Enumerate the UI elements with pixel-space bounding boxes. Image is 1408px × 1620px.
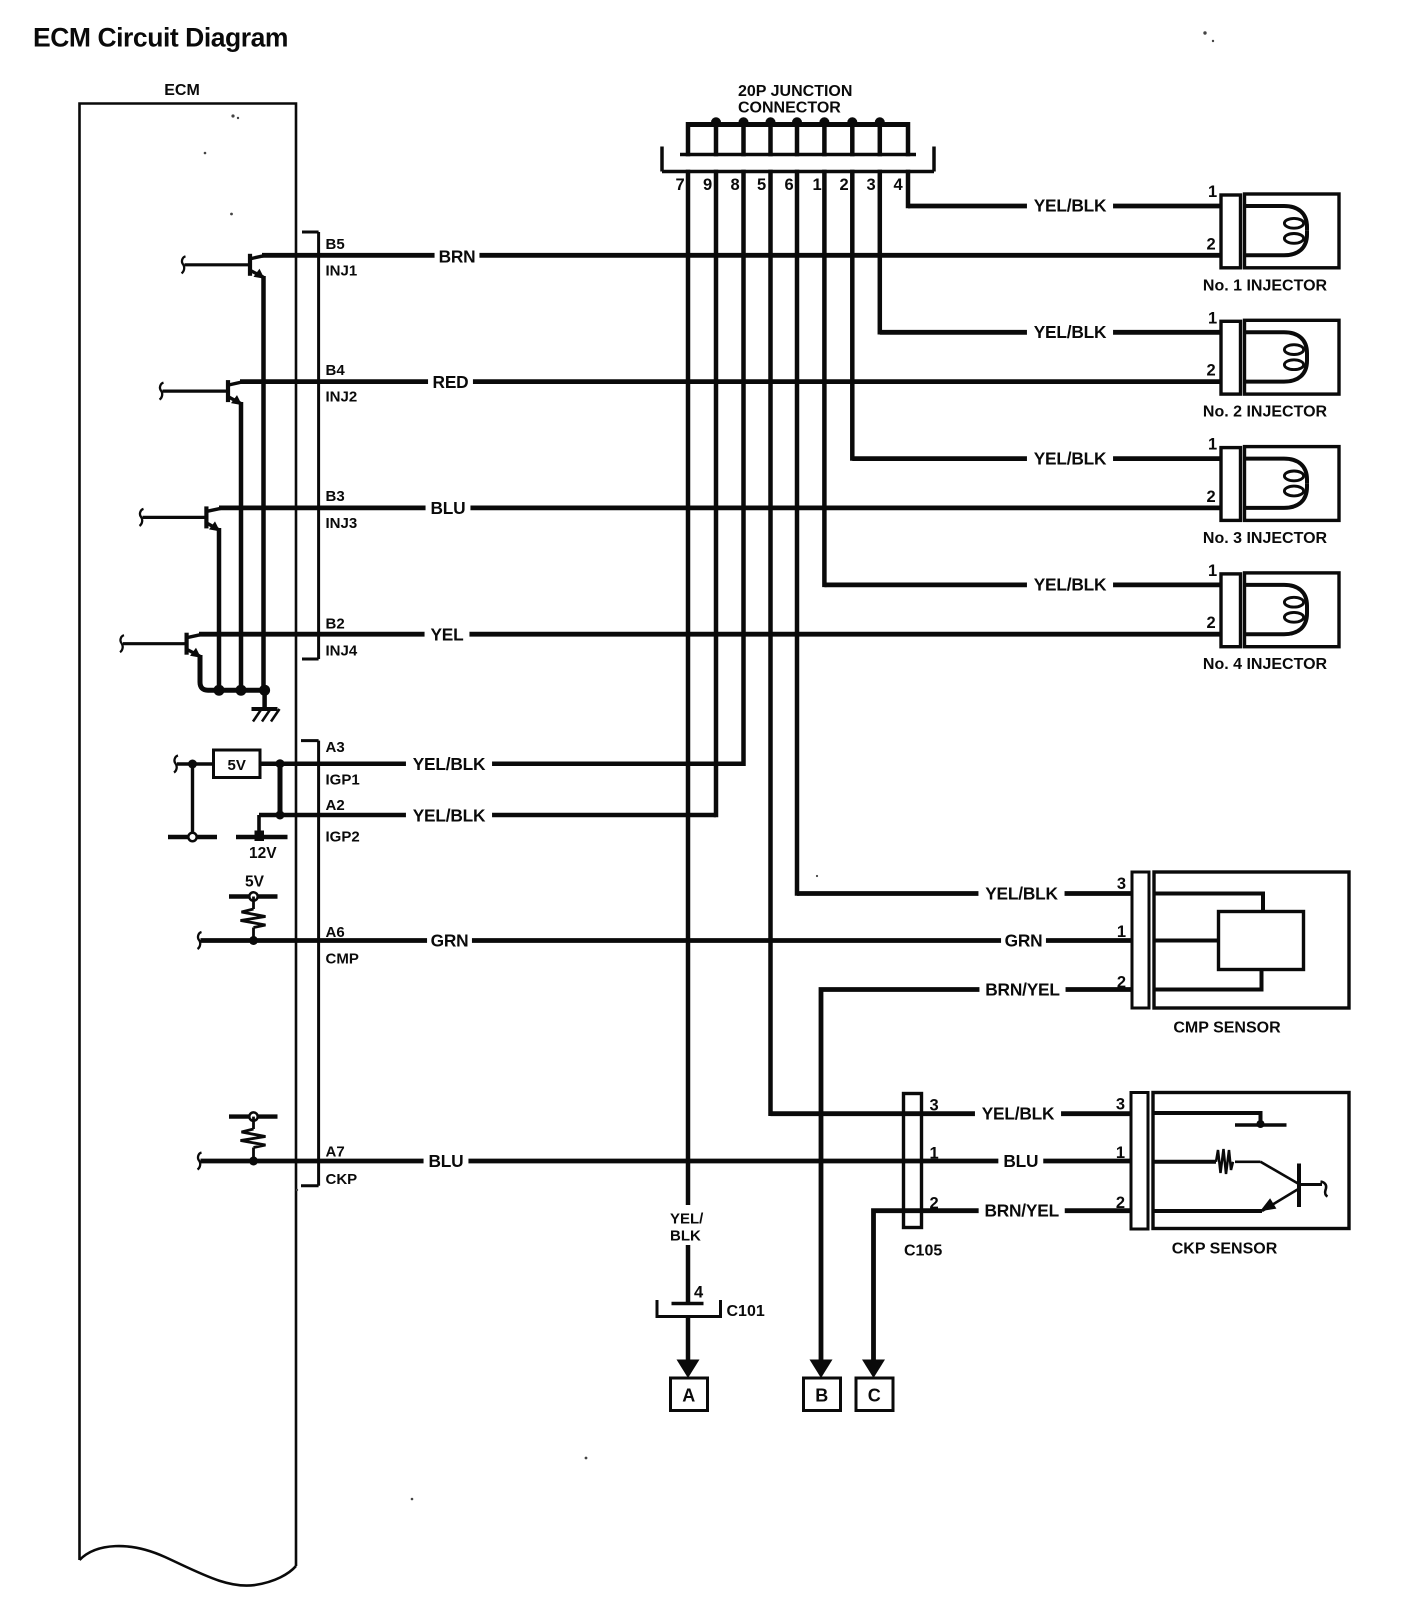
svg-text:BLU: BLU [1003, 1151, 1038, 1171]
node A [671, 1360, 708, 1411]
CMP sensor connector bar [1132, 872, 1149, 1008]
svg-text:YEL/BLK: YEL/BLK [1034, 448, 1107, 468]
resistor R1 (CMP pull-up) [241, 897, 266, 941]
injector L1 coil [1245, 194, 1340, 268]
ground symbol [252, 709, 280, 722]
pin label A7/CKP [326, 1144, 358, 1189]
svg-text:CKP SENSOR: CKP SENSOR [1172, 1241, 1278, 1258]
wire: Q3 emitter vertical [217, 528, 222, 690]
wire: YEL/BLK feed to No.1 injector pin 1 [908, 204, 1221, 209]
label YEL/BLK IGP1 wire [406, 754, 492, 775]
12V tap rail [236, 835, 288, 839]
wire: branch down to left supply tap [191, 764, 194, 833]
No. 3 injector connector [1221, 448, 1241, 521]
svg-text:9: 9 [703, 176, 712, 194]
open connector circle (CMP pull-up) [249, 892, 257, 900]
svg-text:5V: 5V [228, 757, 246, 774]
svg-text:3: 3 [1116, 1096, 1125, 1114]
5V regulator box U1 [214, 750, 261, 778]
junction dot on A6/CMP line [249, 936, 258, 945]
label BRN/YEL CMP pin2 wire [979, 979, 1065, 1000]
svg-text:B5: B5 [326, 236, 345, 253]
junction dot on IGP2 line [276, 811, 285, 820]
label YEL wire [425, 624, 470, 645]
svg-text:B4: B4 [326, 362, 346, 379]
svg-text:2: 2 [1207, 362, 1216, 380]
svg-text:2: 2 [1207, 488, 1216, 506]
transistor Q1 (INJ1 driver) [182, 254, 265, 279]
svg-text:CONNECTOR: CONNECTOR [738, 100, 841, 117]
injector 1 pin numbers [1207, 183, 1218, 253]
20P junction connector label [738, 83, 852, 117]
ECM connector strip A (pins A3-A7) [301, 741, 319, 1186]
junction dot on 5V input [188, 760, 197, 769]
injector 3 pin numbers [1207, 436, 1218, 506]
wire: 20P pin 2 vertical down to injector3 feed [850, 122, 855, 461]
label YEL/BLK injector 4 feed wire [1027, 574, 1113, 595]
svg-text:A2: A2 [326, 797, 345, 814]
label GRN CMP pin1 wire [1001, 930, 1046, 951]
resistor R2 (CKP pull-up) [241, 1117, 266, 1161]
supply tap rail (left) [168, 835, 217, 839]
svg-text:A6: A6 [326, 924, 345, 941]
transistor Q2 (INJ2 driver) [160, 380, 243, 405]
svg-text:1: 1 [1208, 436, 1217, 454]
pin label A2/IGP2 [326, 797, 360, 846]
svg-text:No. 1 INJECTOR: No. 1 INJECTOR [1203, 277, 1328, 294]
svg-text:No. 4 INJECTOR: No. 4 INJECTOR [1203, 656, 1328, 673]
wire: 20P pin 6 vertical down to CMP YEL/BLK line [795, 122, 800, 896]
injector 4 pin numbers [1207, 562, 1218, 632]
label YEL/BLK (pin7 wire) [666, 1205, 716, 1245]
svg-text:2: 2 [1117, 974, 1126, 992]
injector L4 coil [1245, 573, 1340, 647]
svg-text:C101: C101 [727, 1303, 765, 1320]
svg-text:BLU: BLU [429, 1151, 464, 1171]
wire: A6/CMP GRN line from ECM to CMP sensor pin 1 [198, 932, 1133, 949]
No. 4 injector connector [1221, 574, 1241, 647]
svg-text:5: 5 [757, 176, 766, 194]
wire: 20P pin 3 vertical down to injector2 feed [878, 122, 883, 335]
label GRN wire [427, 930, 472, 951]
CKP sensor connector bar [1131, 1093, 1148, 1230]
svg-text:IGP1: IGP1 [326, 772, 360, 789]
wire: BRN/YEL CMP sensor pin 2 to node B [821, 990, 1132, 1363]
svg-text:1: 1 [1116, 1144, 1125, 1162]
wire: ECM B4 RED to No.2 injector pin 2 [240, 379, 1221, 384]
open connector circle on left tap [188, 833, 196, 841]
node B [804, 1360, 841, 1411]
wire: A2/IGP2 line to pin9 corner [259, 813, 716, 818]
pin label B3/INJ3 [326, 488, 358, 532]
pin label A6/CMP [326, 924, 359, 968]
svg-text:YEL/BLK: YEL/BLK [985, 884, 1058, 904]
wire: 20P pin 5 vertical down to CKP YEL/BLK line [768, 122, 773, 1116]
svg-text:2: 2 [1207, 614, 1216, 632]
svg-text:1: 1 [1208, 183, 1217, 201]
CMP sensor pin numbers [1117, 875, 1126, 992]
wire: ECM B2 YEL to No.4 injector pin 2 [199, 632, 1221, 637]
wire: BRN/YEL CKP sensor pin 2 to node C [874, 1211, 1132, 1362]
node C [856, 1360, 893, 1411]
svg-text:B: B [815, 1386, 828, 1406]
wire: YEL/BLK feed to No.3 injector pin 1 [852, 456, 1221, 461]
label BLU CKP pin1 wire [998, 1151, 1043, 1172]
wire: C101 to node A arrow [686, 1317, 691, 1363]
label BLU wire [426, 498, 471, 519]
svg-text:6: 6 [785, 176, 794, 194]
svg-text:A3: A3 [326, 739, 345, 756]
svg-text:4: 4 [694, 1284, 704, 1302]
svg-text:B3: B3 [326, 488, 345, 505]
wire: IGP2 down to 12V tap [257, 815, 261, 833]
pin label B5/INJ1 [326, 236, 358, 280]
svg-text:2: 2 [1207, 235, 1216, 253]
svg-text:INJ2: INJ2 [326, 389, 358, 406]
svg-text:B2: B2 [326, 616, 345, 633]
label YEL/BLK IGP2 wire [406, 805, 492, 826]
svg-text:1: 1 [1117, 923, 1126, 941]
connector C105 [904, 1094, 943, 1260]
svg-text:YEL/: YEL/ [670, 1211, 704, 1228]
svg-text:A7: A7 [326, 1144, 345, 1161]
svg-text:YEL/BLK: YEL/BLK [1034, 575, 1107, 595]
svg-text:2: 2 [840, 176, 849, 194]
svg-text:BRN/YEL: BRN/YEL [984, 1201, 1059, 1221]
svg-text:ECM Circuit Diagram: ECM Circuit Diagram [33, 23, 288, 53]
svg-text:YEL/BLK: YEL/BLK [1034, 322, 1107, 342]
transistor Q3 (INJ3 driver) [140, 506, 221, 531]
svg-text:RED: RED [433, 372, 469, 392]
svg-text:INJ3: INJ3 [326, 515, 358, 532]
svg-text:YEL: YEL [430, 625, 464, 645]
20P junction connector body [662, 147, 934, 172]
ECM connector strip B (pins B5-B2) [302, 232, 319, 659]
svg-text:No. 3 INJECTOR: No. 3 INJECTOR [1203, 530, 1328, 547]
svg-text:C105: C105 [904, 1243, 942, 1260]
wire: YEL/BLK feed to No.2 injector pin 1 [880, 330, 1221, 335]
svg-text:3: 3 [930, 1097, 939, 1115]
wire: ECM B5 BRN to No.1 injector pin 2 [262, 253, 1221, 258]
pin label B2/INJ4 [326, 616, 358, 660]
svg-text:1: 1 [1208, 309, 1217, 327]
label BLU CKP wire [424, 1151, 469, 1172]
svg-text:5V: 5V [245, 874, 265, 891]
svg-text:1: 1 [930, 1145, 939, 1163]
junction dot on A7/CKP line [249, 1157, 258, 1166]
injector L3 coil [1245, 447, 1340, 521]
CKP sensor [1153, 1093, 1349, 1229]
wire: vertical link IGP1 to IGP2 [278, 764, 283, 818]
svg-text:YEL/BLK: YEL/BLK [413, 806, 486, 826]
wire: emitter bus to ground [262, 690, 267, 709]
No. 1 injector connector [1221, 195, 1241, 268]
wire: Q2 emitter vertical [239, 402, 244, 690]
label YEL/BLK injector 1 feed wire [1027, 195, 1113, 216]
wire: 5V box input lead [174, 756, 214, 773]
svg-text:20P JUNCTION: 20P JUNCTION [738, 83, 852, 100]
wire: YEL/BLK feed to No.4 injector pin 1 [824, 583, 1221, 588]
svg-text:1: 1 [1208, 562, 1217, 580]
CMP pull-up supply rail [229, 894, 278, 898]
label BRN wire [435, 246, 480, 267]
ECM box [80, 82, 297, 1586]
wire: 20P pin 4 vertical down to injector1 feed [906, 122, 911, 208]
svg-text:No. 2 INJECTOR: No. 2 INJECTOR [1203, 404, 1328, 421]
svg-text:INJ1: INJ1 [326, 263, 358, 280]
svg-text:12V: 12V [249, 845, 277, 862]
wire: Q1 emitter vertical [261, 276, 266, 690]
injector 2 pin numbers [1207, 309, 1218, 379]
CMP sensor [1154, 872, 1349, 1008]
svg-text:7: 7 [676, 176, 685, 194]
20P connector pin numbers 7 9 8 5 6 1 2 3 4 [676, 176, 904, 194]
label YEL/BLK CMP pin3 wire [978, 883, 1064, 904]
wire: 20P pin 9 vertical down to IGP2 line [714, 122, 719, 817]
svg-text:INJ4: INJ4 [326, 643, 358, 660]
svg-text:CMP: CMP [326, 951, 359, 968]
label YEL/BLK CKP pin3 wire [975, 1103, 1061, 1124]
wire: 20P pin 1 vertical down to injector4 feed [822, 122, 827, 587]
svg-text:IGP2: IGP2 [326, 829, 360, 846]
svg-text:YEL/BLK: YEL/BLK [413, 754, 486, 774]
svg-text:CKP: CKP [326, 1171, 358, 1188]
svg-text:ECM: ECM [164, 82, 200, 99]
pin label A3/IGP1 [326, 739, 360, 789]
svg-text:CMP SENSOR: CMP SENSOR [1173, 1020, 1281, 1037]
svg-text:GRN: GRN [431, 931, 469, 951]
wire: Q4 emitter to common bus [200, 655, 265, 690]
svg-text:4: 4 [894, 176, 904, 194]
junction dots on 20P bus [711, 117, 885, 127]
C105 pin numbers [930, 1097, 939, 1213]
wire: A3/IGP1 line from 5V box to pin8 corner [260, 761, 744, 766]
CKP sensor pin numbers [1116, 1096, 1125, 1213]
wire: YEL/BLK pin5 branch to CKP sensor pin 3 [771, 1111, 1132, 1116]
transistor Q4 (INJ4 driver) [120, 633, 201, 658]
svg-text:BRN/YEL: BRN/YEL [985, 980, 1060, 1000]
wire: ECM B3 BLU to No.3 injector pin 2 [219, 505, 1221, 510]
wire: 20P pin 8 vertical down to IGP1 line [741, 122, 746, 766]
CKP pull-up supply rail [229, 1114, 278, 1118]
svg-text:BLU: BLU [431, 498, 466, 518]
junction dot on IGP1 line [276, 759, 285, 768]
filled connector on 12V tap [255, 831, 265, 842]
svg-text:2: 2 [930, 1195, 939, 1213]
wire: 20P pin 7 vertical down to C101 [686, 122, 691, 1304]
wire: A7/CKP BLU line from ECM to CKP sensor pin 1 [198, 1153, 1132, 1170]
label RED wire [428, 372, 473, 393]
junction dots on emitter bus [214, 685, 271, 696]
svg-text:YEL/BLK: YEL/BLK [1034, 196, 1107, 216]
20P junction connector bus bar [688, 122, 908, 127]
pin label B4/INJ2 [326, 362, 358, 406]
wire: YEL/BLK pin6 branch to CMP sensor pin 3 [797, 891, 1132, 896]
label YEL/BLK injector 3 feed wire [1027, 448, 1113, 469]
svg-text:3: 3 [1117, 875, 1126, 893]
No. 2 injector connector [1221, 321, 1241, 394]
injector L2 coil [1245, 320, 1340, 394]
svg-text:A: A [682, 1386, 695, 1406]
connector C101 [657, 1300, 765, 1320]
scan specks (decorative) [204, 31, 1215, 1500]
svg-text:BLK: BLK [670, 1228, 701, 1245]
label BRN/YEL CKP pin2 wire [979, 1200, 1065, 1221]
svg-text:3: 3 [867, 176, 876, 194]
label YEL/BLK injector 2 feed wire [1027, 322, 1113, 343]
svg-text:BRN: BRN [439, 247, 476, 267]
svg-text:1: 1 [813, 176, 822, 194]
svg-text:8: 8 [731, 176, 740, 194]
svg-text:2: 2 [1116, 1194, 1125, 1212]
svg-text:C: C [868, 1386, 881, 1406]
svg-text:GRN: GRN [1005, 931, 1043, 951]
open connector circle (CKP pull-up) [249, 1112, 257, 1120]
svg-text:YEL/BLK: YEL/BLK [982, 1104, 1055, 1124]
